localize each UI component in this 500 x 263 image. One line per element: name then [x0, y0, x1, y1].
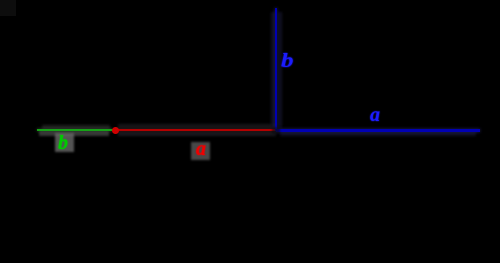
node: red dot junction [112, 127, 119, 134]
wire: green segment b [37, 129, 113, 131]
artifact box behind red label a [191, 142, 210, 160]
artifact band above red segment [118, 124, 276, 128]
artifact band below blue horizontal [280, 132, 476, 136]
artifact band above green segment [42, 125, 110, 129]
artifact faint block top-left [0, 0, 16, 16]
label a (blue) [370, 114, 380, 116]
wire: vertical blue line [275, 8, 277, 131]
label a (red) [196, 148, 206, 150]
artifact halo under green segment [39, 131, 109, 136]
artifact band below red segment [118, 132, 276, 136]
wire: red segment a [115, 129, 276, 131]
artifact band right of blue vertical [278, 12, 282, 128]
label b (blue) [281, 60, 294, 62]
label b (green) [58, 142, 68, 144]
artifact box behind green label b [55, 133, 74, 152]
artifact band left of blue vertical [271, 12, 275, 128]
wire: horizontal blue line [276, 129, 480, 131]
node: junction dark blob at axis corner [272, 127, 280, 134]
